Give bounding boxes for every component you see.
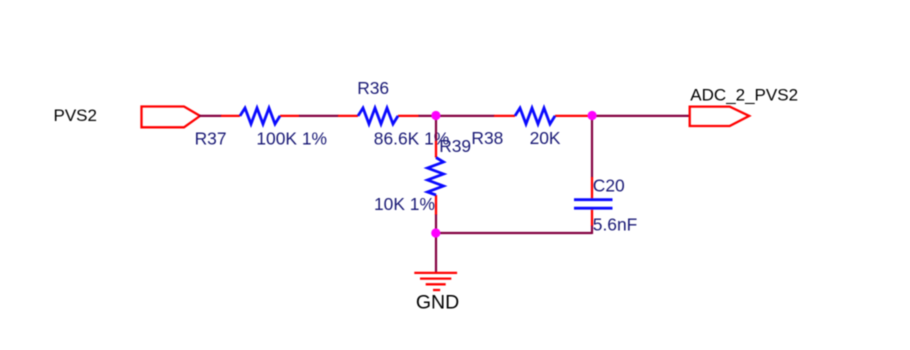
svg-text:R36: R36: [357, 78, 389, 98]
wire node B down to C20: [591, 116, 593, 178]
wire node B to port ADC_2_PVS2: [592, 115, 690, 117]
svg-text:PVS2: PVS2: [54, 106, 97, 125]
resistor R36: [338, 78, 449, 149]
svg-text:R38: R38: [471, 128, 503, 148]
wire node A down to R39: [435, 116, 437, 142]
junction node B: [588, 111, 597, 120]
resistor R38: [471, 108, 592, 148]
port PVS2: [142, 107, 201, 128]
svg-text:GND: GND: [416, 292, 459, 314]
wire node C to capacitor branch: [436, 232, 592, 234]
svg-text:86.6K 1%: 86.6K 1%: [374, 129, 449, 149]
wire port PVS2 to R37: [199, 115, 222, 117]
junction node C: [431, 228, 440, 237]
resistor R37: [195, 108, 327, 149]
svg-text:C20: C20: [593, 176, 625, 196]
resistor R39: [374, 136, 471, 215]
wire R36 to R38 through node A: [419, 115, 495, 117]
svg-text:10K 1%: 10K 1%: [374, 194, 435, 214]
port ADC_2_PVS2: [690, 107, 750, 126]
svg-text:5.6nF: 5.6nF: [593, 215, 637, 235]
wire R37 to R36: [299, 115, 339, 117]
svg-text:R39: R39: [439, 136, 471, 156]
svg-text:20K: 20K: [530, 128, 561, 148]
wire R39 to node C: [435, 215, 437, 234]
svg-text:ADC_2_PVS2: ADC_2_PVS2: [690, 86, 798, 105]
junction node A: [431, 111, 440, 120]
wire node C to ground: [435, 233, 437, 272]
svg-text:100K 1%: 100K 1%: [256, 129, 327, 149]
wire C20 to node C wire: [591, 226, 593, 235]
ground: [414, 273, 457, 290]
svg-text:R37: R37: [195, 129, 227, 149]
capacitor C20: [574, 176, 637, 235]
